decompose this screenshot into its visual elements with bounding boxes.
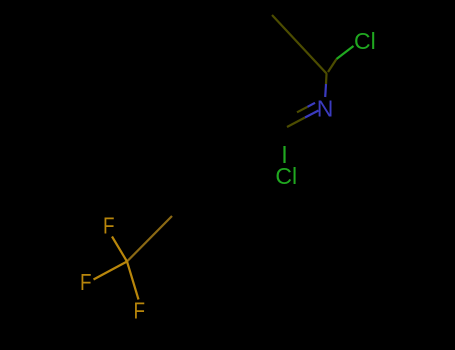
double bond N=C6 inner line blue part (308, 103, 316, 107)
svg-text:F: F (80, 270, 92, 295)
bond CF3 carbon to ring (stub) (127, 216, 172, 262)
wire: long diagonal bond C3-C2 (272, 15, 327, 74)
svg-text:F: F (134, 299, 146, 324)
svg-text:N: N (317, 96, 334, 122)
bond C-F bottom (127, 262, 139, 300)
double bond N=C6 main line blue part (305, 111, 319, 118)
bond C2-N upper olive half (325, 74, 328, 84)
double bond N=C6 main line olive part (287, 118, 305, 128)
svg-text:Cl: Cl (354, 28, 376, 54)
bond C2-Cl olive half (328, 59, 337, 72)
bond C2-Cl green half (337, 46, 354, 59)
svg-text:F: F (103, 214, 115, 239)
svg-text:Cl: Cl (275, 163, 297, 189)
double bond N=C6 inner line olive part (297, 107, 308, 113)
bond C-F left (94, 262, 128, 280)
bond C2-N lower blue half (324, 84, 327, 97)
bond C-F top (112, 237, 127, 262)
bond C6-Cl green half (283, 146, 285, 163)
